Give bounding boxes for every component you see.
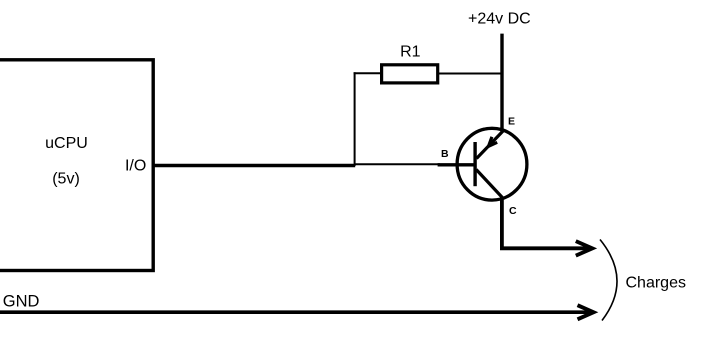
transistor Q1 emitter lead (diagonal) (477, 131, 504, 159)
collector wire arrowhead (576, 241, 593, 256)
transistor Q1 collector lead (diagonal) (476, 170, 502, 198)
wire node to transistor base (thin) (355, 163, 440, 165)
svg-text:uCPU: uCPU (45, 135, 88, 152)
wire R1 right to +24v rail (438, 73, 502, 75)
svg-text:R1: R1 (400, 44, 421, 61)
transistor Q1 base bar (473, 142, 476, 186)
GND wire (0, 310, 590, 314)
+24v rail (vertical wire) (500, 34, 503, 132)
wire I/O output (153, 164, 356, 168)
svg-text:C: C (509, 205, 517, 217)
brace arc for Charges (600, 240, 617, 321)
resistor R1 (382, 65, 438, 83)
svg-text:E: E (508, 116, 515, 128)
GND wire arrowhead (578, 305, 594, 319)
wire riser to R1 (vertical) (354, 72, 356, 166)
svg-text:I/O: I/O (125, 158, 146, 175)
transistor Q1 body circle (457, 128, 527, 200)
svg-text:GND: GND (3, 292, 40, 310)
svg-text:B: B (441, 148, 449, 160)
svg-text:Charges: Charges (626, 274, 686, 291)
transistor Q1 base lead (438, 163, 476, 166)
wire riser top to R1 left (354, 72, 382, 74)
collector wire to charges (502, 198, 590, 249)
svg-text:+24v DC: +24v DC (468, 10, 531, 27)
transistor Q1 emitter arrow (PNP) (488, 137, 497, 147)
svg-text:(5v): (5v) (52, 171, 80, 188)
uCPU box U1 (0, 60, 153, 271)
